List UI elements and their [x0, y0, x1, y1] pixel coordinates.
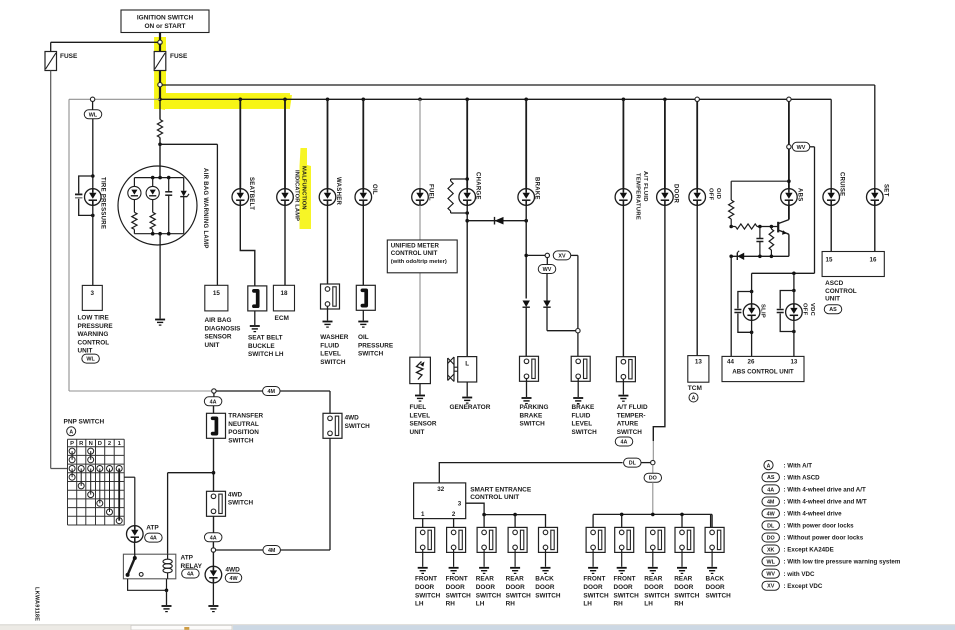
- connector brake fluid level switch: [571, 356, 590, 381]
- svg-text:SWITCH: SWITCH: [476, 592, 502, 599]
- diode WV branch: [543, 301, 550, 308]
- svg-text:ABS: ABS: [796, 188, 802, 202]
- svg-text:SENSOR: SENSOR: [205, 334, 232, 341]
- svg-text:DOOR: DOOR: [706, 584, 726, 591]
- wire rear door switch LH to ground: [483, 550, 485, 567]
- lamp DOOR: [657, 189, 674, 206]
- lamp BRAKE: [518, 189, 535, 206]
- svg-text:MALFUNCTION: MALFUNCTION: [301, 166, 307, 210]
- svg-text:A: A: [692, 396, 696, 402]
- svg-text:RH: RH: [614, 601, 624, 608]
- atp relay box: [123, 554, 175, 579]
- svg-text:SWITCH: SWITCH: [617, 429, 643, 436]
- svg-text:SWITCH: SWITCH: [228, 500, 254, 507]
- connector 15 air bag diagnosis sensor unit: [205, 285, 228, 311]
- ground washer fluid level switch: [323, 322, 333, 328]
- svg-text:PNP SWITCH: PNP SWITCH: [64, 419, 105, 426]
- highlight ignition feed wire: [155, 37, 290, 110]
- svg-text:SWITCH LH: SWITCH LH: [248, 351, 284, 358]
- lamp OIL: [355, 189, 372, 206]
- wire secu pin3 bus: [466, 503, 546, 527]
- svg-text:OFF: OFF: [708, 188, 714, 201]
- svg-text:FLUID: FLUID: [572, 412, 591, 419]
- lamp SEATBELT: [232, 189, 249, 206]
- svg-text:SWITCH: SWITCH: [358, 351, 384, 358]
- wire front door switch RH to ground 2: [621, 550, 623, 567]
- svg-text:LOW TIRE: LOW TIRE: [78, 315, 110, 322]
- wire airbag to ground: [159, 234, 161, 319]
- svg-text:DL: DL: [767, 523, 775, 529]
- svg-text:PARKING: PARKING: [520, 404, 549, 411]
- wire dl to node: [641, 462, 651, 464]
- svg-text:ON or START: ON or START: [144, 23, 185, 30]
- airbag capacitor: [168, 178, 170, 192]
- svg-text:PRESSURE: PRESSURE: [358, 342, 394, 349]
- svg-text:BACK: BACK: [535, 576, 554, 583]
- connector front door switch RH (without power door locks): [615, 527, 634, 552]
- wire secu pin32: [439, 463, 622, 483]
- svg-text:13: 13: [790, 359, 797, 366]
- diode brake line: [523, 301, 530, 308]
- wire door feed: [664, 99, 666, 188]
- wire 4wd lamp to ground: [212, 583, 214, 605]
- connector rear door switch RH (without power door locks): [675, 527, 694, 552]
- connector rear door switch LH: [477, 527, 496, 552]
- svg-text:SWITCH: SWITCH: [345, 423, 371, 430]
- wire front door switch LH to ground 2: [592, 550, 594, 567]
- node od off bus: [695, 97, 699, 101]
- tag A TCM: [689, 393, 698, 402]
- svg-text:CONTROL UNIT: CONTROL UNIT: [470, 494, 519, 501]
- svg-text:DOOR: DOOR: [644, 584, 664, 591]
- tag 4M lower: [263, 546, 281, 555]
- svg-text:WV: WV: [543, 267, 552, 273]
- lamp 4WD: [205, 566, 222, 583]
- wire atp lamp into relay: [134, 542, 136, 558]
- svg-text:FUSE: FUSE: [170, 53, 188, 60]
- fuse F2: [159, 44, 161, 52]
- ground front door switch RH 2: [617, 568, 627, 574]
- svg-text:: with VDC: : with VDC: [784, 571, 815, 578]
- svg-text:SWITCH: SWITCH: [415, 592, 441, 599]
- svg-text:LH: LH: [476, 601, 485, 608]
- connector front door switch RH: [447, 527, 466, 552]
- wire oil switch to ground: [362, 310, 364, 320]
- capacitor abs: [759, 227, 761, 239]
- svg-text:SWITCH: SWITCH: [520, 421, 546, 428]
- wire into airbag lamp circle: [159, 144, 161, 177]
- node charge diode: [465, 219, 469, 223]
- connector seat belt buckle switch: [248, 286, 267, 311]
- node brake fluid join: [576, 329, 580, 333]
- wire capacitor branch: [79, 176, 93, 193]
- svg-text:XV: XV: [767, 584, 775, 590]
- svg-text:32: 32: [437, 486, 444, 493]
- wire bus drop to cruise: [830, 99, 832, 188]
- tag WV brake: [538, 265, 556, 274]
- node brake variant split: [524, 254, 528, 258]
- svg-text:SWITCH: SWITCH: [535, 592, 561, 599]
- wire seatbelt to buckle switch: [240, 205, 255, 286]
- wire MIL feed: [284, 99, 286, 188]
- wire WV branch: [546, 258, 548, 265]
- legend 4W: [762, 509, 780, 518]
- abs bottom rail: [731, 255, 789, 257]
- connector 18 ECM: [273, 285, 294, 311]
- airbag zener diode: [183, 178, 185, 191]
- node r3 branch: [770, 225, 774, 229]
- connector parking brake switch: [520, 356, 539, 381]
- svg-text:BUCKLE: BUCKLE: [248, 343, 275, 350]
- svg-text:DOOR: DOOR: [446, 584, 466, 591]
- svg-text:TEMPERATURE: TEMPERATURE: [635, 173, 641, 220]
- lamp AT FLUID TEMPERATURE: [615, 189, 632, 206]
- svg-text:WL: WL: [89, 112, 98, 118]
- connector rear door switch RH: [508, 527, 527, 552]
- svg-text:SWITCH: SWITCH: [228, 437, 254, 444]
- svg-text:SWITCH: SWITCH: [446, 592, 472, 599]
- node abs bus: [787, 97, 791, 101]
- wire oil feed: [362, 99, 364, 188]
- wire upper feed line to SET: [162, 84, 875, 86]
- wire WL branch: [92, 102, 94, 110]
- svg-text:CRUISE: CRUISE: [839, 172, 845, 196]
- airbag LED 1: [133, 178, 135, 187]
- svg-text:UNIT: UNIT: [825, 296, 840, 303]
- ground fuel level sensor: [415, 396, 425, 402]
- svg-text:CONTROL: CONTROL: [78, 339, 110, 346]
- generator terminal box L: [458, 357, 477, 382]
- node fused feed: [158, 83, 162, 87]
- wire bank2 bus: [593, 513, 711, 515]
- svg-text:4A: 4A: [150, 536, 157, 542]
- lamp SET: [867, 189, 884, 206]
- svg-text:: With 4-wheel drive and A/T: : With 4-wheel drive and A/T: [784, 487, 866, 494]
- svg-text:RH: RH: [446, 601, 456, 608]
- wire brake feed: [525, 99, 527, 188]
- lamp OD OFF: [689, 189, 706, 206]
- ground rear door switch RH: [510, 568, 520, 574]
- wire fuel feed: [419, 99, 421, 188]
- legend WV: [762, 569, 780, 578]
- resistor airbag feed: [159, 100, 161, 120]
- svg-text:CONTROL: CONTROL: [825, 288, 857, 295]
- wire abs feed lower: [788, 149, 790, 189]
- svg-text:FUSE: FUSE: [60, 53, 78, 60]
- highlight bus wire segment: [160, 93, 292, 109]
- lamp VDC OFF: [793, 291, 795, 304]
- svg-text:P: P: [70, 441, 74, 447]
- svg-text:SWITCH: SWITCH: [506, 592, 532, 599]
- svg-text:TEMPER-: TEMPER-: [617, 412, 646, 419]
- svg-text:AS: AS: [829, 307, 837, 313]
- wire generator to ground: [466, 382, 468, 397]
- node base rail left: [729, 225, 733, 229]
- wire set to ascd: [874, 205, 876, 251]
- wire rear door switch LH to ground 2: [652, 550, 654, 567]
- svg-text:SWITCH: SWITCH: [572, 429, 598, 436]
- node cap branch: [758, 225, 762, 229]
- node abs resistor link: [787, 179, 791, 183]
- wire fuel to sensor upper: [419, 205, 421, 240]
- ground back door switch 2: [707, 568, 717, 574]
- svg-text:ASCD: ASCD: [825, 280, 843, 287]
- wire abs rail to pin 44: [730, 256, 732, 356]
- wire charge feed: [466, 99, 468, 188]
- tag WL: [84, 110, 102, 119]
- resistor abs R1: [730, 181, 732, 200]
- wire at temp to switch: [622, 205, 624, 356]
- svg-text:A/T FLUID: A/T FLUID: [617, 404, 648, 411]
- wire bus main: [160, 98, 831, 100]
- svg-text:DIAGNOSIS: DIAGNOSIS: [205, 325, 242, 332]
- svg-text:OIL: OIL: [371, 184, 377, 195]
- svg-text:LEVEL: LEVEL: [572, 421, 593, 428]
- legend XV: [762, 581, 780, 590]
- node ignition feed: [158, 40, 162, 44]
- svg-text:REAR: REAR: [674, 576, 692, 583]
- svg-text:REAR: REAR: [476, 576, 494, 583]
- svg-text:FRONT: FRONT: [446, 576, 468, 583]
- wire washer to switch: [327, 205, 329, 284]
- svg-text:44: 44: [727, 359, 734, 366]
- wire bank2 right drop: [711, 513, 713, 515]
- wire WV to join: [547, 330, 576, 332]
- svg-text:ABS CONTROL UNIT: ABS CONTROL UNIT: [732, 368, 794, 375]
- wire rear door switch RH to ground 2: [681, 550, 683, 567]
- svg-text:NEUTRAL: NEUTRAL: [228, 421, 259, 428]
- wire parking brake to ground: [526, 379, 528, 397]
- node transfer branch: [212, 389, 216, 393]
- svg-text:WV: WV: [766, 572, 775, 578]
- charge parallel resistor: [451, 178, 468, 180]
- wire brake down: [525, 205, 527, 298]
- svg-text:: Without power door locks: : Without power door locks: [784, 535, 864, 542]
- ground back door switch: [541, 568, 551, 574]
- svg-text:FRONT: FRONT: [415, 576, 437, 583]
- ground oil pressure switch: [358, 322, 368, 328]
- bus junction dots: [239, 98, 243, 102]
- wire 4wd loop return: [216, 549, 330, 551]
- svg-text:D: D: [98, 441, 102, 447]
- legend WL: [762, 557, 780, 566]
- airbag internal top bus: [134, 177, 183, 179]
- wire fuse1 to pnp: [50, 71, 52, 469]
- svg-text:CONTROL UNIT: CONTROL UNIT: [391, 250, 438, 257]
- wire MIL to ECM: [284, 205, 286, 285]
- bank2 drops: [592, 514, 594, 527]
- airbag resistor 1: [133, 200, 135, 213]
- svg-text:AIR BAG WARNING LAMP: AIR BAG WARNING LAMP: [202, 168, 208, 249]
- connector front door switch LH: [416, 527, 435, 552]
- svg-text:4A: 4A: [621, 440, 628, 446]
- svg-text:4A: 4A: [767, 487, 774, 493]
- lamp CHARGE: [459, 189, 476, 206]
- node abs WV: [787, 145, 791, 149]
- svg-text:4A: 4A: [210, 535, 217, 541]
- tag 4A 4wd lamp: [204, 533, 222, 542]
- wire WV diode: [546, 274, 548, 301]
- wire abs resistor link: [731, 180, 789, 182]
- svg-text:: With 4-wheel drive: : With 4-wheel drive: [784, 511, 843, 518]
- wire at fluid temp feed: [622, 99, 624, 188]
- resistor abs R3: [770, 227, 772, 230]
- svg-text:TRANSFER: TRANSFER: [228, 413, 263, 420]
- lamp WASHER: [319, 189, 336, 206]
- svg-text:FUEL: FUEL: [428, 184, 434, 201]
- wire to atp relay coil: [168, 472, 214, 474]
- atp relay coil: [167, 554, 169, 559]
- svg-text:4W: 4W: [229, 576, 238, 582]
- lamp FUEL: [412, 189, 429, 206]
- wire tag to node: [212, 542, 214, 548]
- svg-text:SEATBELT: SEATBELT: [248, 177, 254, 210]
- wire secu pin1: [422, 519, 424, 528]
- tag 4A atp: [145, 533, 163, 542]
- node 4wd loop join: [211, 548, 215, 552]
- connector transfer neutral position switch: [207, 413, 226, 438]
- resistor abs R2 horizontal: [731, 226, 735, 228]
- tag WL legend under unit: [82, 354, 100, 363]
- fuel level sensor unit box: [410, 357, 431, 383]
- svg-text:: With ASCD: : With ASCD: [784, 474, 821, 481]
- svg-text:15: 15: [826, 257, 833, 264]
- svg-text:DOOR: DOOR: [506, 584, 526, 591]
- atp relay contact: [128, 558, 135, 575]
- ground airbag lamp: [155, 320, 165, 326]
- connector at fluid temperature switch: [616, 357, 635, 382]
- slip lamp parallel capacitor: [750, 290, 754, 294]
- svg-text:OFF: OFF: [801, 303, 807, 316]
- wire lamp to unit 3: [92, 205, 94, 285]
- connector rear door switch LH (without power door locks): [646, 527, 665, 552]
- tag 4A relay: [182, 569, 200, 578]
- wire back door switch to ground 2: [711, 550, 713, 567]
- svg-text:A: A: [69, 430, 73, 436]
- wire oil to switch: [362, 205, 364, 285]
- wire XV to brake fluid drop: [571, 254, 578, 256]
- wire od off feed: [696, 102, 698, 189]
- wire transfer switch down: [213, 438, 215, 491]
- svg-text:SWITCH: SWITCH: [674, 592, 700, 599]
- ground rear door switch LH: [479, 568, 489, 574]
- svg-text:TCM: TCM: [688, 385, 702, 392]
- svg-text:BRAKE: BRAKE: [520, 412, 543, 419]
- connector 3 low tire pressure warning control unit: [82, 285, 102, 310]
- ignition switch box: [121, 10, 209, 33]
- svg-text:FUEL: FUEL: [410, 404, 427, 411]
- wire secu pin2: [453, 519, 455, 528]
- svg-text:LKWA9118E: LKWA9118E: [34, 587, 40, 621]
- svg-text:FLUID: FLUID: [320, 342, 339, 349]
- svg-text:DO: DO: [649, 476, 657, 482]
- svg-text:XV: XV: [558, 253, 566, 259]
- tag WV abs: [792, 142, 810, 151]
- wire ignition to node: [159, 33, 161, 41]
- svg-text:4M: 4M: [268, 389, 276, 395]
- wire od off to TCM: [696, 205, 698, 355]
- svg-text:DO: DO: [767, 536, 775, 542]
- svg-text:REAR: REAR: [644, 576, 662, 583]
- svg-text:SWITCH: SWITCH: [644, 592, 670, 599]
- ground atp relay: [162, 606, 172, 612]
- ascd control unit box: [822, 252, 884, 277]
- connector back door switch (without power door locks): [705, 527, 724, 552]
- lamp SLIP: [751, 292, 753, 304]
- svg-text:DOOR: DOOR: [583, 584, 603, 591]
- svg-text:WL: WL: [86, 357, 95, 363]
- svg-text:DOOR: DOOR: [415, 584, 435, 591]
- svg-text:: With low tire pressure warni: : With low tire pressure warning system: [784, 559, 901, 566]
- ground front door switch LH: [418, 568, 428, 574]
- svg-text:WASHER: WASHER: [335, 177, 341, 206]
- tag DL: [624, 458, 642, 467]
- zener diode abs: [737, 253, 744, 260]
- svg-text:WL: WL: [767, 559, 776, 565]
- svg-text:13: 13: [695, 359, 703, 366]
- node tire pressure bottom: [91, 214, 95, 218]
- svg-text:4A: 4A: [187, 572, 194, 578]
- legend A: [764, 461, 773, 470]
- svg-text:LH: LH: [644, 601, 653, 608]
- svg-text:INDICATOR LAMP: INDICATOR LAMP: [293, 170, 299, 221]
- pnp column links: [71, 451, 73, 460]
- wire to brake fluid switch: [577, 333, 579, 356]
- capacitor C tire pressure: [75, 193, 82, 195]
- svg-text:XK: XK: [767, 548, 775, 554]
- wire seatbelt lamp feed: [239, 99, 241, 188]
- svg-text:SWITCH: SWITCH: [706, 592, 732, 599]
- connector oil pressure switch: [356, 285, 375, 310]
- svg-text:PRESSURE: PRESSURE: [78, 323, 114, 330]
- wire relay to ground: [128, 579, 167, 591]
- svg-text:1: 1: [421, 511, 425, 518]
- svg-text:: With A/T: : With A/T: [784, 462, 813, 469]
- svg-text:4M: 4M: [268, 548, 276, 554]
- svg-text:LEVEL: LEVEL: [410, 412, 431, 419]
- svg-text:BRAKE: BRAKE: [534, 177, 540, 200]
- svg-text:: Except KA24DE: : Except KA24DE: [784, 547, 834, 554]
- svg-text:BRAKE: BRAKE: [572, 404, 595, 411]
- svg-text:15: 15: [213, 290, 221, 297]
- legend DO: [762, 533, 780, 542]
- svg-text:O/D: O/D: [715, 188, 721, 199]
- ground front door switch LH 2: [588, 568, 598, 574]
- transistor Q1: [777, 222, 779, 233]
- wire vdc to pin 13: [793, 320, 795, 356]
- ground 4wd lamp: [208, 606, 218, 612]
- wire pnp to atp lamp: [124, 476, 135, 478]
- node vdc drop: [792, 272, 796, 276]
- node bus tap: [158, 98, 162, 102]
- air bag warning lamp circle: [118, 166, 197, 245]
- wire bus left segment: [69, 98, 160, 100]
- svg-text:DOOR: DOOR: [476, 584, 496, 591]
- wire 4wd lamp drop: [212, 552, 214, 566]
- tag 4A transfer: [213, 393, 215, 397]
- wire slip to pin 26: [751, 320, 753, 356]
- svg-text:3: 3: [458, 501, 462, 508]
- svg-text:N: N: [89, 441, 93, 447]
- lamp MALFUNCTION INDICATOR: [277, 189, 294, 206]
- svg-text:AS: AS: [767, 475, 775, 481]
- wire brake fluid to ground: [577, 379, 579, 397]
- wire front door switch LH to ground: [422, 550, 424, 567]
- wire rail to transfer branch: [69, 390, 214, 392]
- svg-text:WV: WV: [797, 145, 806, 151]
- svg-text:DOOR: DOOR: [672, 184, 678, 204]
- legend DL: [762, 521, 780, 530]
